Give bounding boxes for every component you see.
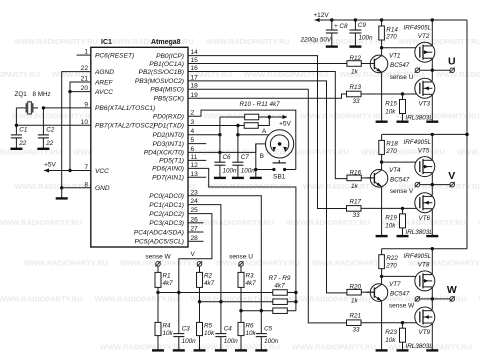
wire +5V to VCC pin7	[44, 170, 91, 172]
junction gate VT5	[380, 160, 383, 163]
resistor R17	[347, 206, 362, 212]
svg-text:WWW.RADIOPARTY.RU: WWW.RADIOPARTY.RU	[191, 295, 275, 304]
junction R11/+5V	[268, 115, 271, 118]
svg-text:33: 33	[353, 212, 361, 219]
svg-text:VCC: VCC	[95, 168, 109, 175]
ground symbol R15	[397, 120, 409, 122]
svg-text:19: 19	[191, 92, 199, 99]
svg-text:W: W	[447, 284, 457, 296]
svg-text:PB5(SCK): PB5(SCK)	[154, 96, 184, 103]
transistor VT3 IRL3803L	[415, 78, 435, 98]
junction encoder A row	[236, 133, 239, 136]
junction R19	[401, 207, 404, 210]
ground symbol emitter VT7	[376, 349, 388, 351]
svg-text:PC1(ADC1): PC1(ADC1)	[149, 202, 184, 209]
svg-text:PD7(AIN1): PD7(AIN1)	[152, 175, 184, 182]
svg-text:2200µ 50V: 2200µ 50V	[300, 37, 332, 44]
wire drain VT5	[431, 134, 433, 159]
junction V rail	[465, 133, 468, 136]
ground symbol C1	[10, 148, 22, 150]
resistor R1	[157, 266, 159, 272]
wire PD0 pin2 to SB1 top route	[188, 110, 296, 169]
wire AGND pin22 to GND rail	[62, 72, 91, 188]
svg-text:WWW.RADIOPARTY.RU: WWW.RADIOPARTY.RU	[265, 147, 349, 156]
wire SB1 right	[285, 169, 296, 171]
svg-text:sense W: sense W	[145, 253, 171, 260]
wire gate VT3	[361, 93, 417, 95]
junction star R7	[294, 291, 297, 294]
junction R15	[401, 92, 404, 95]
svg-text:IRF4905L: IRF4905L	[404, 25, 432, 32]
svg-text:270: 270	[385, 34, 397, 41]
wire source VT9 to ground	[431, 323, 433, 350]
svg-text:WWW.RADIOPARTY.RU: WWW.RADIOPARTY.RU	[14, 37, 98, 46]
svg-text:10k: 10k	[163, 330, 174, 337]
svg-text:9: 9	[84, 101, 88, 108]
output row V	[415, 182, 420, 187]
svg-text:33: 33	[353, 327, 361, 334]
node row W	[158, 292, 296, 294]
wire gate VT9	[361, 322, 417, 324]
svg-text:R13: R13	[350, 84, 362, 91]
svg-text:WWW.RADIOPARTY.RU: WWW.RADIOPARTY.RU	[300, 112, 384, 121]
svg-text:22: 22	[81, 65, 89, 72]
svg-text:22: 22	[18, 140, 27, 147]
wire emitter VT1 to ground	[381, 72, 383, 121]
wire SB1 left	[256, 169, 274, 171]
svg-text:4k7: 4k7	[274, 282, 285, 289]
svg-text:25: 25	[191, 207, 199, 214]
svg-text:1: 1	[84, 49, 88, 56]
ground symbol emitter VT4	[376, 235, 388, 237]
svg-text:C1: C1	[19, 127, 27, 134]
svg-text:PB3(MOSI/OC2): PB3(MOSI/OC2)	[135, 78, 184, 85]
svg-text:PC2(ADC2): PC2(ADC2)	[149, 211, 184, 218]
svg-text:8 MHz: 8 MHz	[33, 91, 51, 98]
junction C7 on R11 row	[236, 124, 239, 127]
svg-text:1k: 1k	[351, 183, 359, 190]
svg-text:R15: R15	[385, 100, 397, 107]
svg-text:28: 28	[191, 235, 199, 242]
wire source VT2 to output	[431, 58, 433, 70]
wire PC4 pin27 stub	[188, 231, 204, 233]
svg-text:13: 13	[191, 171, 199, 178]
resistor R15	[402, 94, 404, 100]
junction pin4/C6 net	[218, 133, 221, 136]
svg-text:1k: 1k	[351, 297, 359, 304]
svg-text:R23: R23	[385, 329, 397, 336]
svg-text:IRL3803L: IRL3803L	[406, 115, 434, 122]
svg-text:1k: 1k	[351, 69, 359, 76]
svg-text:VT1: VT1	[389, 53, 401, 60]
wire PD2 pin4	[188, 134, 220, 136]
svg-text:R3: R3	[246, 273, 255, 280]
svg-text:WWW.RADIOPARTY.RU: WWW.RADIOPARTY.RU	[287, 295, 371, 304]
ground symbol R4	[152, 349, 164, 351]
svg-text:24: 24	[191, 198, 199, 205]
svg-text:R12: R12	[350, 55, 362, 62]
junction node R3	[239, 309, 242, 312]
svg-text:C5: C5	[264, 326, 273, 333]
svg-text:A: A	[262, 128, 267, 135]
wire PB4 pin18 to R21	[188, 89, 347, 323]
svg-text:11: 11	[191, 154, 198, 161]
svg-text:22: 22	[45, 140, 54, 147]
svg-text:V: V	[191, 251, 196, 258]
svg-text:sense V: sense V	[390, 188, 414, 195]
svg-text:IRL3803L: IRL3803L	[406, 229, 434, 236]
svg-text:10k: 10k	[246, 330, 257, 337]
junction pin6/C6 net	[218, 151, 221, 154]
svg-text:VT8: VT8	[418, 262, 430, 269]
svg-text:15: 15	[191, 57, 199, 64]
crystal ZQ1 symbol	[25, 103, 27, 112]
svg-text:PB6(XTAL1/TOSC1): PB6(XTAL1/TOSC1)	[95, 105, 155, 112]
svg-text:100n: 100n	[223, 167, 238, 174]
resistor R8	[273, 299, 288, 305]
wire emitter VT7 to ground	[381, 301, 383, 350]
svg-text:R1: R1	[163, 273, 171, 280]
capacitor C5	[260, 311, 262, 334]
resistor R13	[347, 91, 362, 97]
transistor VT6 IRL3803L	[415, 193, 435, 213]
svg-text:sense U: sense U	[229, 253, 253, 260]
svg-text:8: 8	[84, 181, 88, 188]
wire gate VT5	[382, 161, 417, 163]
wire drain VT6	[431, 185, 433, 196]
wire AVCC pin20	[70, 91, 91, 93]
svg-text:R10 - R11 4k7: R10 - R11 4k7	[240, 101, 281, 108]
wire to ground symbol	[61, 188, 63, 199]
svg-text:C6: C6	[223, 154, 232, 161]
svg-text:R14: R14	[386, 26, 398, 33]
svg-text:VT2: VT2	[418, 33, 430, 40]
+12V arrow symbol	[315, 18, 320, 22]
encoder common wire	[256, 144, 266, 153]
svg-text:WWW.RADIOPARTY.RU: WWW.RADIOPARTY.RU	[24, 259, 108, 268]
ground symbol C7	[232, 177, 244, 179]
wire collector VT4	[381, 162, 383, 170]
pin 1 stub wire	[77, 54, 91, 56]
svg-text:12: 12	[191, 162, 199, 169]
svg-text:+5V: +5V	[44, 162, 56, 169]
ground symbol main	[56, 197, 68, 199]
section W rail wire	[382, 248, 467, 250]
wire PC2 pin25 to sense W node	[179, 214, 212, 293]
svg-text:4k7: 4k7	[246, 280, 257, 287]
capacitor C3	[178, 293, 180, 334]
wire source VT5 to output	[431, 173, 433, 185]
svg-text:PB0(ICP): PB0(ICP)	[156, 53, 184, 60]
svg-text:6: 6	[191, 146, 195, 153]
junction R23	[401, 321, 404, 324]
svg-text:R5: R5	[204, 323, 213, 330]
ground symbol emitter VT1	[376, 120, 388, 122]
svg-text:WWW.RADIOPARTY.RU: WWW.RADIOPARTY.RU	[0, 70, 40, 79]
svg-text:18: 18	[191, 83, 199, 90]
svg-text:R16: R16	[350, 169, 362, 176]
wire gate VT6	[361, 207, 417, 209]
resistor R12	[347, 61, 361, 67]
svg-text:R7 - R9: R7 - R9	[269, 275, 291, 282]
junction star R8	[294, 300, 297, 303]
push button SB1	[272, 168, 275, 171]
wire PC3 pin26 stub	[188, 222, 204, 224]
ground symbol C8	[326, 45, 338, 47]
capacitor C9	[354, 18, 357, 21]
transistor VT8 IRF4905L	[415, 271, 435, 291]
encoder A wire	[238, 134, 269, 136]
svg-text:5: 5	[191, 137, 195, 144]
svg-text:PD5(T1): PD5(T1)	[159, 158, 184, 165]
ground symbol VT6	[426, 235, 438, 237]
output row W	[415, 297, 420, 302]
wire PB5 pin19 to R13	[188, 94, 347, 98]
svg-text:21: 21	[81, 76, 89, 83]
svg-text:WWW.RADIOPARTY.RU: WWW.RADIOPARTY.RU	[95, 295, 179, 304]
svg-text:14: 14	[191, 49, 199, 56]
resistor R2	[199, 266, 201, 272]
wire drain VT2	[431, 20, 433, 45]
resistor R21	[347, 320, 362, 326]
junction crystal/C1/pin10	[15, 124, 18, 127]
wire PD6 pin12 to star point	[188, 168, 296, 310]
svg-text:2: 2	[191, 110, 195, 117]
ground symbol C2	[37, 148, 49, 150]
svg-text:C3: C3	[182, 326, 191, 333]
svg-text:R19: R19	[385, 215, 397, 222]
svg-text:PD6(AIN0): PD6(AIN0)	[152, 166, 184, 173]
svg-text:+5V: +5V	[279, 120, 291, 127]
crystal ZQ1 wires XTAL1 row	[43, 107, 90, 109]
wire PC5 pin28 stub	[188, 240, 204, 242]
capacitor C7	[237, 126, 239, 163]
wire R11 right joins +5V	[258, 117, 269, 126]
svg-text:B: B	[260, 153, 264, 160]
wire gate VT8	[382, 275, 417, 277]
transistor VT1 BC547	[370, 55, 388, 73]
resistor R4	[157, 293, 159, 323]
svg-text:WWW.RADIOPARTY.RU: WWW.RADIOPARTY.RU	[286, 218, 370, 227]
wire source VT6 to ground	[431, 209, 433, 236]
junction +5V/AVCC	[68, 169, 71, 172]
resistor R10 left wire	[220, 116, 245, 118]
svg-text:20: 20	[81, 85, 89, 92]
svg-text:VT5: VT5	[418, 147, 430, 154]
wire drain VT8	[431, 249, 433, 274]
wire collector VT1	[381, 48, 383, 56]
svg-text:WWW.RADIOPARTY.RU: WWW.RADIOPARTY.RU	[292, 343, 376, 352]
svg-text:sense U: sense U	[390, 74, 414, 81]
svg-text:WWW.RADIOPARTY.RU: WWW.RADIOPARTY.RU	[457, 147, 480, 156]
resistor R9	[273, 308, 288, 314]
junction AVCC/AREF	[68, 90, 71, 93]
svg-text:BC547: BC547	[390, 62, 410, 69]
svg-text:WWW.RADIOPARTY.RU: WWW.RADIOPARTY.RU	[0, 147, 61, 156]
resistor R14	[380, 18, 383, 21]
transistor VT2 IRF4905L	[415, 42, 435, 62]
junction node R1	[156, 291, 159, 294]
node row V	[200, 301, 296, 303]
resistor R7	[273, 290, 288, 296]
svg-text:BC547: BC547	[390, 291, 410, 298]
svg-text:100n: 100n	[224, 338, 239, 345]
svg-text:100n: 100n	[359, 35, 374, 42]
svg-text:IRF4905L: IRF4905L	[404, 253, 432, 260]
output row U	[415, 68, 420, 73]
svg-text:4k7: 4k7	[204, 280, 215, 287]
net vertical C6/R10	[219, 117, 221, 162]
svg-text:U: U	[448, 56, 456, 68]
svg-text:26: 26	[191, 216, 199, 223]
svg-text:R4: R4	[163, 323, 172, 330]
wire PD3 pin5 stub	[188, 143, 206, 145]
svg-text:WWW.RADIOPARTY.RU: WWW.RADIOPARTY.RU	[0, 295, 83, 304]
svg-text:16: 16	[191, 65, 199, 72]
ground symbol encoder	[250, 177, 262, 179]
svg-text:270: 270	[385, 148, 397, 155]
+5V arrow symbol	[44, 168, 49, 172]
ground symbol VT9	[426, 349, 438, 351]
resistor R22	[381, 249, 383, 255]
ground symbol VT3	[426, 120, 438, 122]
svg-text:C4: C4	[224, 326, 233, 333]
svg-text:WWW.RADIOPARTY.RU: WWW.RADIOPARTY.RU	[100, 343, 184, 352]
svg-text:R21: R21	[350, 313, 362, 320]
svg-text:R22: R22	[386, 255, 398, 262]
resistor R23	[402, 323, 404, 329]
ground symbol C3	[173, 349, 185, 351]
resistor R19	[402, 208, 404, 214]
resistor R5	[199, 302, 201, 323]
ground symbol R23	[397, 349, 409, 351]
transistor VT7 BC547	[370, 284, 388, 302]
svg-text:PD2(INT0): PD2(INT0)	[152, 132, 184, 139]
wire collector VT7	[381, 276, 383, 284]
junction GND pin8	[60, 186, 63, 189]
svg-text:+ C8: + C8	[334, 23, 348, 30]
section V rail wire	[382, 133, 467, 135]
svg-text:IRF4905L: IRF4905L	[404, 139, 432, 146]
svg-text:33: 33	[353, 98, 361, 105]
svg-text:100n: 100n	[182, 338, 197, 345]
wire PD5 pin11 stub	[188, 159, 206, 161]
transistor VT9 IRL3803L	[415, 307, 435, 327]
wire encoder common to ground	[255, 144, 257, 178]
junction cap C5	[260, 309, 263, 312]
wire PC0 pin23 to sense U node	[188, 196, 261, 311]
svg-text:R2: R2	[204, 273, 213, 280]
wire PB2 pin16 to R16	[188, 72, 347, 179]
connector	[197, 262, 202, 267]
svg-text:C9: C9	[358, 22, 367, 29]
svg-text:PD1(TXD): PD1(TXD)	[154, 123, 184, 130]
svg-text:PD3(INT1): PD3(INT1)	[152, 141, 184, 148]
resistor R10	[245, 114, 259, 120]
svg-text:R20: R20	[350, 284, 362, 291]
svg-text:PD0(RXD): PD0(RXD)	[153, 114, 184, 121]
svg-text:ZQ1: ZQ1	[15, 91, 28, 98]
transistor VT5 IRF4905L	[415, 157, 435, 177]
svg-text:3: 3	[191, 119, 195, 126]
svg-text:+12V: +12V	[313, 12, 329, 19]
capacitor C1	[11, 134, 22, 136]
svg-text:SB1: SB1	[273, 174, 286, 181]
svg-text:BC547: BC547	[390, 176, 410, 183]
svg-text:WWW.RADIOPARTY.RU: WWW.RADIOPARTY.RU	[398, 37, 480, 46]
svg-text:23: 23	[191, 189, 199, 196]
capacitor C6	[219, 152, 221, 162]
junction C2/XTAL1	[42, 106, 45, 109]
wire PB3 pin17 to R20	[188, 81, 347, 293]
svg-text:C7: C7	[241, 154, 250, 161]
wire GND pin8	[62, 187, 91, 189]
wire emitter VT4 to ground	[381, 187, 383, 236]
wire PC1 pin24 to sense V node	[188, 205, 221, 302]
ground symbol C9	[349, 45, 361, 47]
wire crystal left to XTAL2 row	[16, 107, 25, 109]
transistor VT4 BC547	[370, 170, 388, 188]
svg-text:PB2(SS/OC1B): PB2(SS/OC1B)	[139, 69, 184, 76]
resistor R6	[240, 311, 242, 323]
svg-text:4: 4	[191, 128, 195, 135]
svg-text:VT3: VT3	[419, 101, 431, 108]
svg-text:PD4(XCK/T0): PD4(XCK/T0)	[144, 150, 184, 157]
svg-text:GND: GND	[95, 185, 110, 192]
wire PD4 pin6 to encoder net	[188, 151, 256, 153]
wire PD1 pin3 to R11	[188, 125, 244, 127]
junction cap C4	[219, 300, 222, 303]
resistor R11	[244, 123, 258, 129]
svg-text:27: 27	[191, 226, 199, 233]
connector sense U	[239, 262, 244, 267]
encoder S1 body	[266, 130, 294, 158]
capacitor C4	[220, 302, 222, 334]
svg-text:100n: 100n	[264, 338, 279, 345]
wire AREF pin21	[70, 82, 91, 171]
svg-text:AREF: AREF	[94, 79, 114, 86]
capacitor C2	[42, 108, 44, 135]
svg-text:PB1(OC1A): PB1(OC1A)	[149, 61, 184, 68]
ground symbol R6	[235, 349, 247, 351]
svg-text:7: 7	[84, 164, 88, 171]
svg-text:WWW.RADIOPARTY.RU: WWW.RADIOPARTY.RU	[436, 70, 480, 79]
wire drain VT3	[431, 70, 433, 81]
wire PD7 pin13 stub	[188, 176, 206, 178]
wire PB1 pin15 to R12	[188, 63, 347, 65]
ground symbol C4	[215, 349, 227, 351]
wire R10 right to +5V arrow	[259, 116, 284, 118]
+5V arrow right	[283, 115, 288, 119]
capacitor C8	[330, 18, 333, 21]
svg-text:10k: 10k	[385, 223, 396, 230]
junction node R2	[198, 300, 201, 303]
svg-text:VT6: VT6	[419, 215, 431, 222]
connector sense W	[156, 262, 161, 267]
svg-text:sense W: sense W	[389, 303, 415, 310]
svg-text:R17: R17	[350, 198, 362, 205]
ground symbol C6	[214, 177, 226, 179]
svg-text:PC3(ADC3): PC3(ADC3)	[149, 220, 184, 227]
ground symbol R19	[397, 235, 409, 237]
resistor R16	[347, 175, 361, 181]
svg-text:100n: 100n	[241, 167, 256, 174]
wire drain VT9	[431, 299, 433, 310]
IC U1 body (IC1 Atmega8)	[91, 47, 188, 247]
supply rail wire	[315, 19, 467, 21]
wire source VT3 to ground	[431, 94, 433, 121]
resistor R20	[347, 289, 361, 295]
